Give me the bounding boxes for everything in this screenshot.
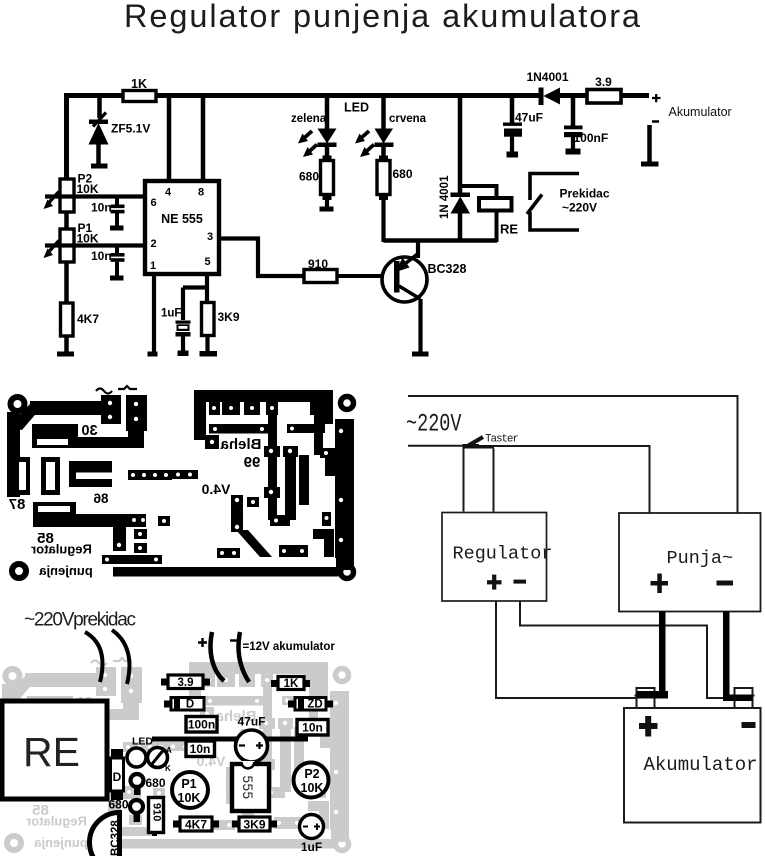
PCB copper layout (mirror view) xyxy=(7,386,354,579)
resistor 680 zelena xyxy=(299,156,334,212)
mounting hole top-left xyxy=(11,397,25,411)
svg-text:Regulator punjenja akumulatora: Regulator punjenja akumulatora xyxy=(124,0,641,34)
wire punjac minus thick xyxy=(723,612,753,702)
svg-text:4K7: 4K7 xyxy=(77,312,99,326)
diode 1N4001 flyback xyxy=(439,96,470,243)
label ~220V xyxy=(406,410,462,438)
svg-text:10n: 10n xyxy=(190,742,211,756)
capacitor 10n pin2 xyxy=(91,246,125,281)
pads Q xyxy=(217,548,240,558)
svg-text:RE: RE xyxy=(500,222,518,237)
resistor 680 standing 1 xyxy=(131,774,166,795)
IC 555 socket xyxy=(232,761,269,811)
svg-text:86: 86 xyxy=(93,491,109,506)
ground emitter xyxy=(412,352,429,357)
svg-text:LED: LED xyxy=(132,736,153,748)
relay RE coil xyxy=(460,186,518,242)
svg-text:P1: P1 xyxy=(181,777,196,791)
svg-text:10n: 10n xyxy=(91,201,112,215)
ground 4K7 xyxy=(57,352,74,357)
svg-text:680: 680 xyxy=(299,170,319,184)
pad row xyxy=(209,402,322,415)
svg-text:10K: 10K xyxy=(301,781,324,795)
svg-text:10n: 10n xyxy=(302,721,323,735)
svg-text:680: 680 xyxy=(146,776,166,790)
resistor 910 xyxy=(304,257,337,283)
wire akumulator minus lead xyxy=(238,632,249,682)
diode D vertical xyxy=(111,749,124,800)
battery terminal plus xyxy=(652,94,661,102)
svg-text:10K: 10K xyxy=(178,791,201,805)
svg-text:~220Vprekidac: ~220Vprekidac xyxy=(24,610,136,631)
pads L xyxy=(320,448,335,458)
svg-text:100nF: 100nF xyxy=(574,131,609,145)
mounting hole top-right xyxy=(341,397,354,410)
svg-text:4: 4 xyxy=(165,187,172,199)
wire regulator plus lead xyxy=(496,601,642,698)
trace K xyxy=(287,424,325,433)
svg-text:~220V: ~220V xyxy=(562,201,597,215)
trace left edge xyxy=(7,401,112,497)
svg-text:2: 2 xyxy=(150,238,156,250)
transistor BC328 outline xyxy=(90,813,122,856)
svg-text:10n: 10n xyxy=(91,249,112,263)
capacitor 10n pin6 xyxy=(91,197,125,231)
block Akumulator xyxy=(624,708,761,823)
right slab xyxy=(325,419,354,570)
potentiometer P1 10K xyxy=(44,221,146,262)
svg-text:~220V: ~220V xyxy=(406,410,462,438)
wire punjac plus thick xyxy=(637,612,668,699)
trace N2 xyxy=(279,545,308,557)
svg-text:5: 5 xyxy=(204,256,210,268)
block Punja xyxy=(619,513,761,612)
svg-text:BC328: BC328 xyxy=(110,820,122,856)
relay RE outline xyxy=(2,701,107,799)
trace extra vertical xyxy=(299,455,309,505)
wire P2 to P1 xyxy=(64,212,69,229)
capacitor 1uF top view xyxy=(300,815,324,855)
svg-text:3.9: 3.9 xyxy=(178,677,194,689)
svg-text:99: 99 xyxy=(244,454,261,471)
slotted bar A xyxy=(32,424,130,448)
svg-text:10K: 10K xyxy=(77,182,99,196)
mounting hole bottom-right xyxy=(341,566,354,579)
wire pin4 xyxy=(167,96,172,182)
pad cluster top xyxy=(101,395,147,448)
transistor BC328 xyxy=(382,241,466,353)
trace vertical x316 xyxy=(314,402,323,455)
capacitor 47uF xyxy=(503,96,543,158)
svg-text:Regulator: Regulator xyxy=(453,544,553,565)
svg-text:Regulator: Regulator xyxy=(31,542,92,557)
wire top supply rail xyxy=(66,93,649,179)
switch Prekidac 220V xyxy=(527,174,610,231)
svg-text:3.9: 3.9 xyxy=(595,75,612,89)
LED lens 2 zener Z xyxy=(148,746,173,773)
svg-text:1uF: 1uF xyxy=(301,840,322,854)
PCB gray underlay (component side) xyxy=(2,658,349,851)
svg-text:6: 6 xyxy=(150,197,156,209)
svg-text:3: 3 xyxy=(207,231,213,243)
svg-text:RE: RE xyxy=(23,729,80,775)
svg-text:680: 680 xyxy=(109,798,129,812)
resistor 3K9 xyxy=(232,817,277,832)
svg-text:4K7: 4K7 xyxy=(185,818,207,832)
capacitor 47uF top view xyxy=(236,715,268,763)
slotted bar B xyxy=(15,457,30,495)
svg-text:Punja~: Punja~ xyxy=(667,548,734,569)
pad chain xyxy=(128,470,198,480)
bottom trace xyxy=(113,567,342,577)
LED zelena xyxy=(291,96,337,162)
squiggle marks xyxy=(96,386,137,394)
svg-text:punjenja: punjenja xyxy=(39,563,93,578)
label plus xyxy=(198,638,207,647)
wire pin5 xyxy=(183,274,207,320)
svg-text:D: D xyxy=(113,770,122,784)
resistor 4K7 xyxy=(173,817,219,832)
resistor 4K7 xyxy=(61,303,100,352)
resistor 680 standing 2 xyxy=(109,798,144,823)
pad trace mid xyxy=(270,515,290,526)
svg-text:1K: 1K xyxy=(131,77,147,91)
battery terminal posts xyxy=(635,688,755,708)
svg-text:V4.0: V4.0 xyxy=(201,481,230,497)
svg-text:1N 4001: 1N 4001 xyxy=(439,175,451,219)
svg-text:NE 555: NE 555 xyxy=(161,212,203,226)
ground 3K9 xyxy=(200,351,218,357)
svg-text:1N4001: 1N4001 xyxy=(526,70,568,84)
wire pin8 xyxy=(201,96,206,182)
pads R xyxy=(231,495,243,532)
wire regulator minus lead xyxy=(520,601,729,698)
slotted bar E xyxy=(33,502,146,527)
top main trace xyxy=(194,390,333,449)
diode 1N4001 series xyxy=(526,70,568,105)
svg-text:zelena: zelena xyxy=(291,113,327,125)
svg-text:47uF: 47uF xyxy=(515,111,543,125)
svg-text:Akumulator: Akumulator xyxy=(644,754,758,776)
svg-text:Taster: Taster xyxy=(485,434,519,446)
svg-text:ZF5.1V: ZF5.1V xyxy=(111,122,150,136)
trace O xyxy=(313,529,334,557)
LED crvena xyxy=(355,96,427,162)
wire collector node xyxy=(384,238,498,243)
svg-text:crvena: crvena xyxy=(389,113,427,125)
potentiometer P2 xyxy=(294,763,329,798)
svg-text:910: 910 xyxy=(151,803,163,821)
svg-text:K: K xyxy=(165,764,171,773)
wire 220V lead 2 xyxy=(112,630,129,684)
capacitor 100nF xyxy=(564,96,608,155)
potentiometer P1 xyxy=(172,772,208,808)
resistor 680 crvena xyxy=(377,156,413,243)
IC NE555 xyxy=(145,181,219,274)
pads P xyxy=(322,512,331,526)
wire pin3 output xyxy=(219,239,304,277)
svg-text:Prekidac: Prekidac xyxy=(559,187,609,201)
svg-text:3K9: 3K9 xyxy=(218,310,240,324)
svg-text:1K: 1K xyxy=(284,678,299,690)
trace G vertical xyxy=(113,516,170,553)
svg-text:Akumulator: Akumulator xyxy=(669,105,732,119)
resistor 3K9 xyxy=(202,303,240,352)
svg-text:30: 30 xyxy=(81,423,97,439)
wire switch to regulator xyxy=(464,449,494,512)
svg-text:47uF: 47uF xyxy=(237,715,265,729)
svg-text:87: 87 xyxy=(9,496,26,513)
potentiometer P2 10K xyxy=(44,172,146,213)
wire base xyxy=(337,274,395,278)
pad extra xyxy=(247,497,259,507)
mounting hole bottom-left xyxy=(12,564,26,578)
svg-text:Bleha: Bleha xyxy=(220,436,262,453)
resistor 3.9 xyxy=(587,75,621,103)
svg-text:910: 910 xyxy=(308,257,328,271)
wire switch to punjac xyxy=(494,446,650,513)
svg-text:555: 555 xyxy=(240,776,255,800)
wire mains to switch xyxy=(408,445,463,447)
ground pin1 xyxy=(148,352,158,357)
svg-text:=12V akumulator: =12V akumulator xyxy=(243,641,336,653)
wire 220V lead 1 xyxy=(85,632,102,682)
svg-text:P2: P2 xyxy=(304,767,319,781)
resistor 1K xyxy=(271,677,310,691)
switch Taster xyxy=(463,434,520,449)
C-shape pad D xyxy=(69,461,112,487)
block Regulator xyxy=(442,513,552,602)
svg-text:LED: LED xyxy=(344,101,369,115)
capacitor 10n left xyxy=(186,741,215,757)
wire pin1 xyxy=(152,274,156,352)
LED lens 1 xyxy=(127,748,146,767)
trace J vertical xyxy=(264,415,280,520)
svg-text:A: A xyxy=(166,746,172,755)
diode D horizontal xyxy=(164,698,204,711)
wire zener branch xyxy=(97,96,102,119)
svg-text:ZD: ZD xyxy=(307,699,322,711)
wire akumulator plus lead xyxy=(211,632,225,681)
svg-text:BC328: BC328 xyxy=(428,262,467,276)
slotted bar C xyxy=(41,457,60,495)
capacitor 10n right xyxy=(297,720,328,736)
capacitor 1uF xyxy=(161,308,191,357)
zener diode ZF5.1V xyxy=(89,113,151,165)
wire P1 to 4K7 xyxy=(64,262,69,303)
capacitor 100n xyxy=(186,717,217,733)
svg-text:100n: 100n xyxy=(188,718,215,732)
svg-text:1uF: 1uF xyxy=(161,308,181,320)
svg-text:3K9: 3K9 xyxy=(243,818,265,832)
resistor 910 vertical xyxy=(149,798,164,837)
wire bus bar xyxy=(152,737,308,742)
svg-text:10K: 10K xyxy=(77,232,99,246)
label minus xyxy=(230,639,237,641)
svg-text:D: D xyxy=(186,699,194,711)
svg-text:1: 1 xyxy=(150,260,156,272)
ground zener xyxy=(91,164,108,169)
battery terminal minus xyxy=(641,122,659,167)
trace H xyxy=(102,555,162,564)
trace I xyxy=(209,424,269,434)
svg-text:8: 8 xyxy=(198,187,204,199)
wire mains top xyxy=(408,396,738,513)
resistor 1K xyxy=(123,77,156,102)
zener ZD xyxy=(288,698,333,711)
diagonal trace N xyxy=(236,530,272,557)
svg-text:680: 680 xyxy=(393,167,413,181)
trace M xyxy=(283,446,298,520)
resistor 3.9 xyxy=(161,675,210,689)
